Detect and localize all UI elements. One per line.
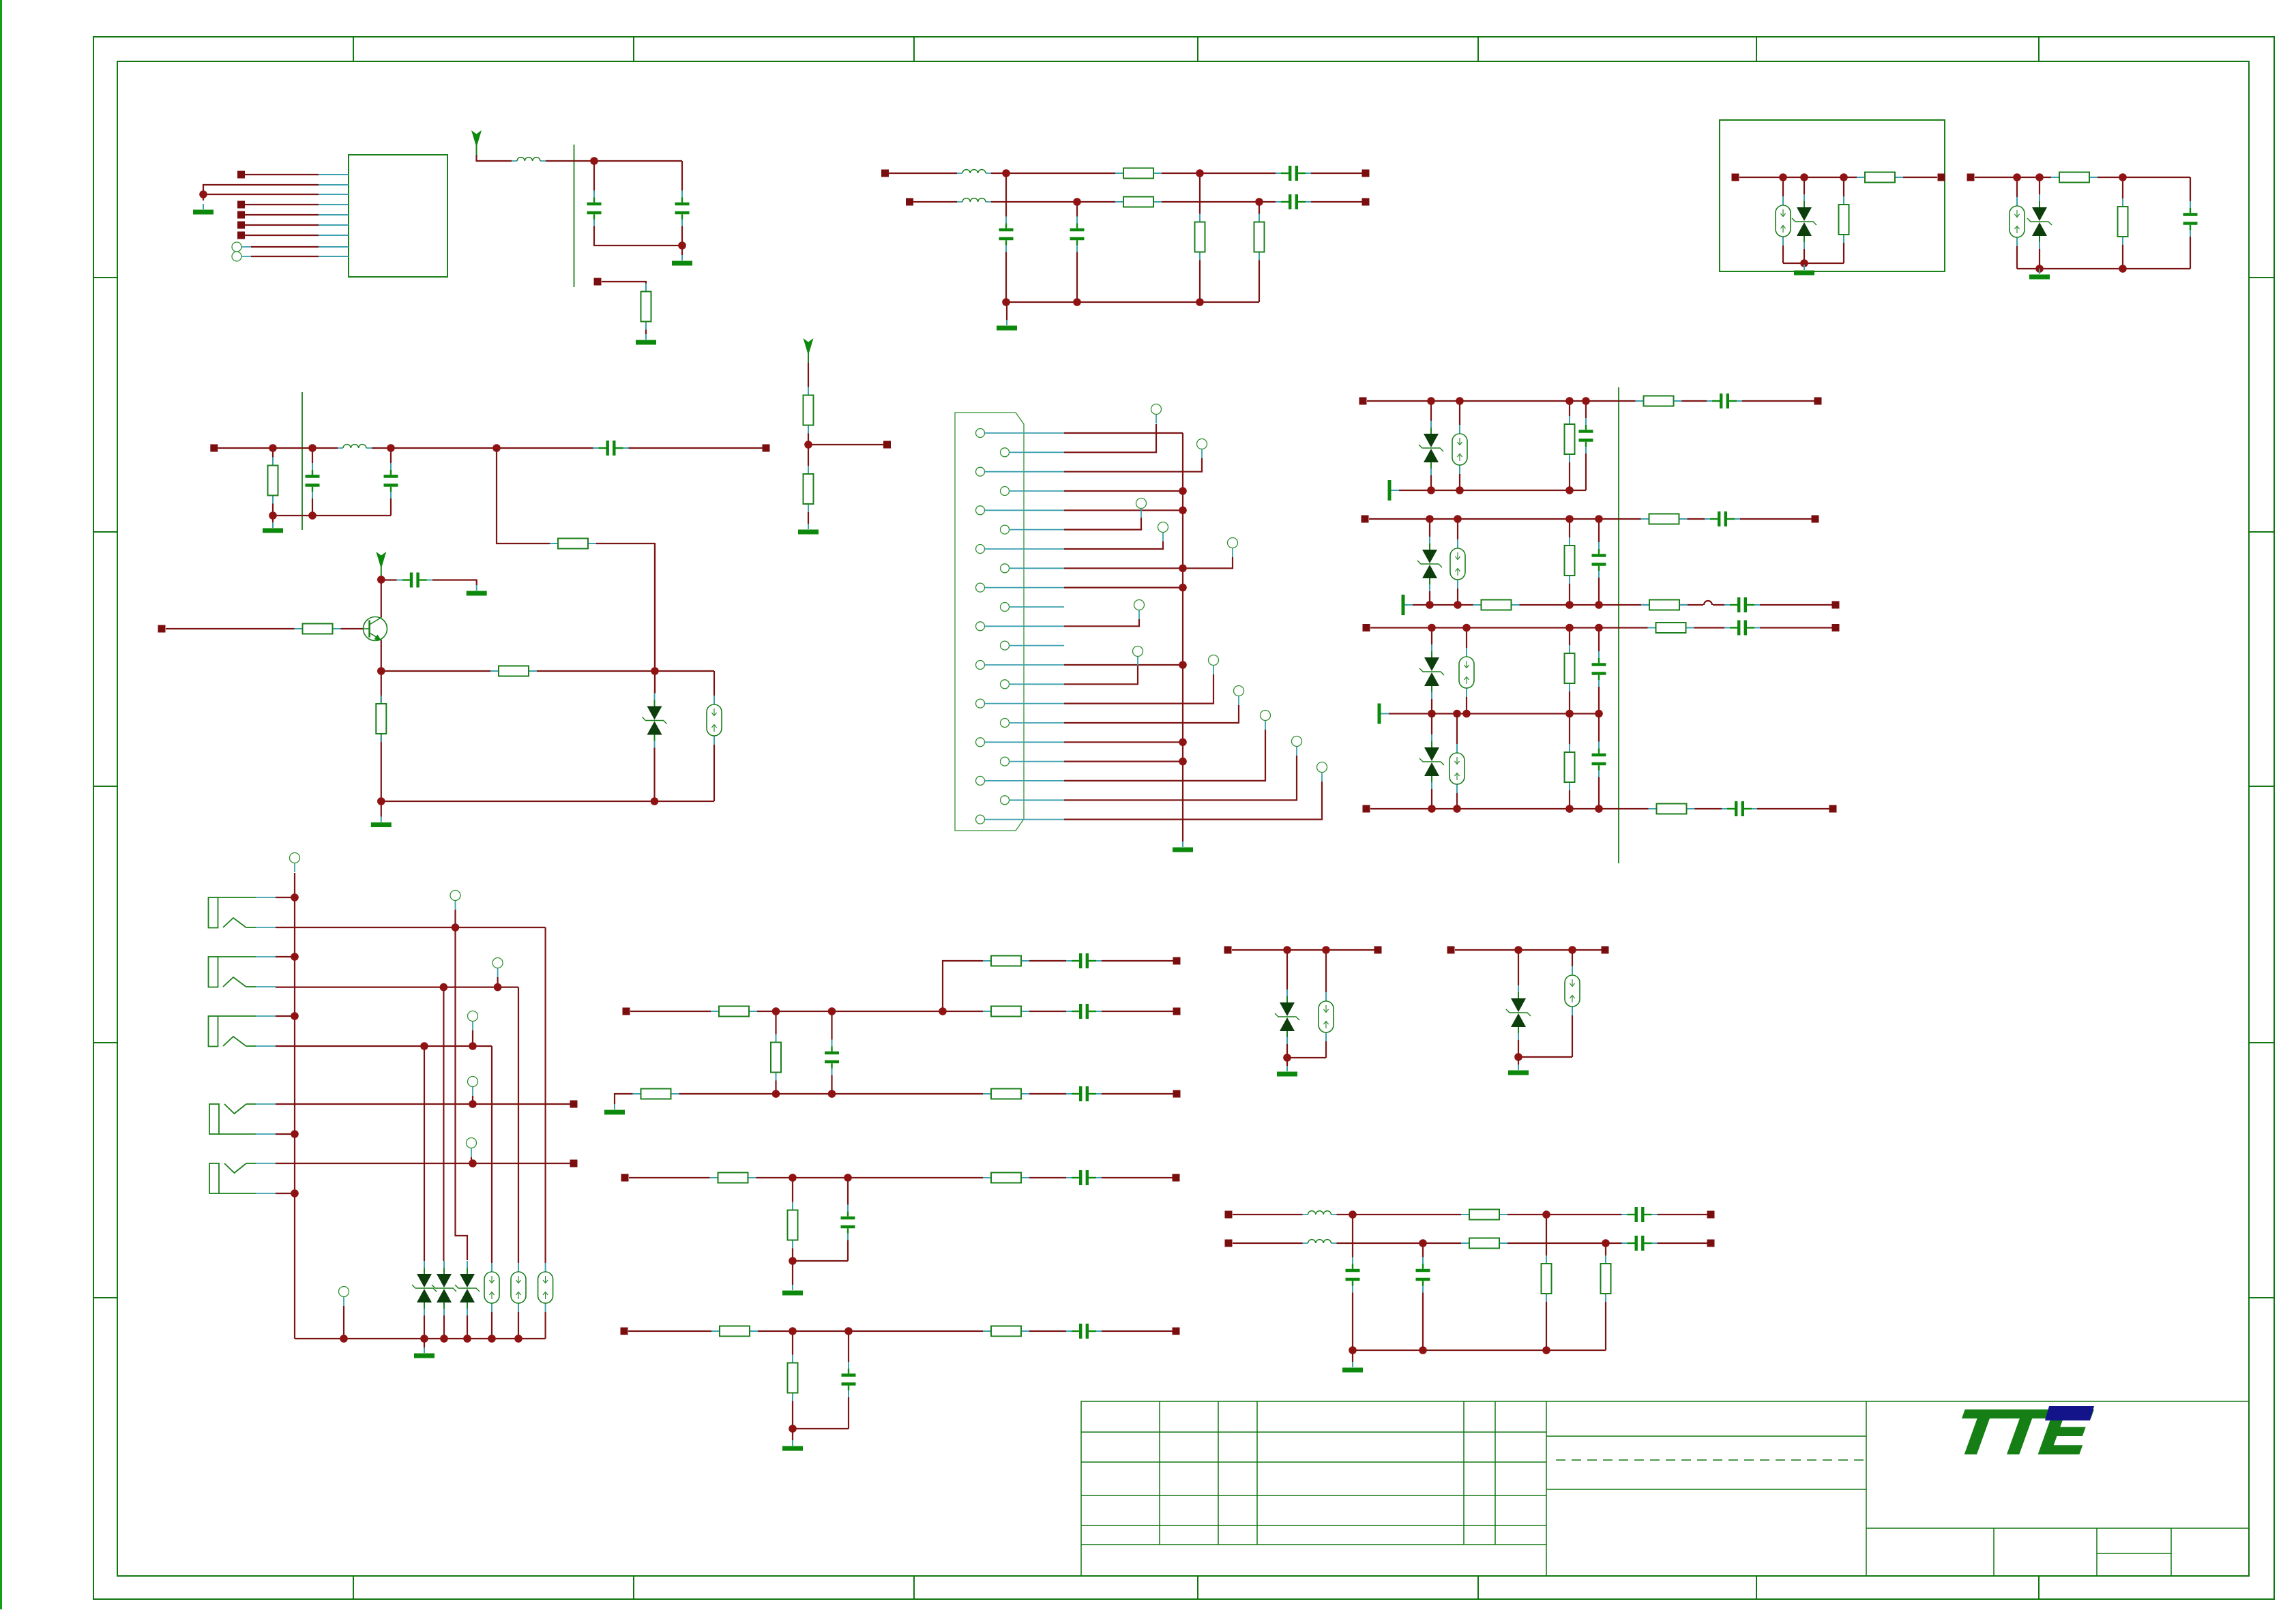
junction [1002,169,1263,306]
junction [1427,397,1590,494]
wire block2 [1975,177,2190,273]
wire midleft drops [273,448,391,522]
wire CN1 pin2 [1064,424,1156,452]
gas discharge tube GT10 [538,1263,553,1312]
wire antenna net [477,155,683,255]
TVS diode D5 [1417,537,1442,591]
ground [371,817,392,828]
capacitor C4 [1069,217,1085,252]
port P8 [906,198,913,206]
capacitor C19 [1591,742,1607,777]
capacitor C22 [1066,1002,1102,1020]
port P38 [1374,947,1382,954]
junction [2013,173,2127,273]
junctions jack area [291,893,523,1343]
wire M2 drops [793,1178,848,1285]
resistor R37 [983,1326,1029,1337]
junction [772,1090,836,1098]
ground [263,522,283,533]
resistor R18 [1636,396,1682,406]
wire railB [1413,604,1832,606]
resistor R21 [1473,600,1520,610]
port P22 [1832,601,1840,609]
resistor R38 [788,1355,798,1401]
wire CN1 pin17 [1064,741,1183,743]
audio jack J2 [209,957,276,987]
resistor R29 [983,1007,1029,1017]
wire CN1 pin4 [1064,490,1183,492]
wire CN1 pin1 [1064,432,1183,434]
resistor R11 [550,539,596,549]
port P20 [1362,516,1369,523]
wire railC [1389,713,1599,714]
wire P6 to R1 [602,282,646,334]
wire LC drops [1353,1215,1606,1362]
wire CN1 pin21 [1064,781,1322,820]
wire hop [1704,601,1712,605]
port P19 [1814,398,1822,405]
ground [782,1440,803,1451]
connector CN1 [955,413,1024,831]
gas discharge tube GT8 [484,1263,499,1312]
company logo TTE [1952,1397,2095,1466]
junction [1426,601,1603,609]
wire T19 stub [343,1306,344,1339]
wire jack bus [294,873,295,1339]
capacitor C21 [1066,952,1102,970]
TVS diode D4 [1419,421,1443,475]
resistor R19 [1565,537,1575,584]
gas discharge tube GT2 [2010,197,2025,246]
wire T17 stub [472,1096,473,1104]
junction [789,1174,852,1265]
capacitor C7 [2182,201,2198,237]
TVS diode D1 [1792,194,1816,249]
wire block1 drops [1783,177,1844,267]
junction [1514,946,1576,1061]
inductor L3 [957,198,991,202]
ground [1342,1362,1363,1373]
capacitor C17 [1591,651,1607,687]
resistor R12 [804,387,814,434]
port P37 [1224,947,1232,954]
wire T18 stub [471,1157,472,1163]
port P23 [1363,624,1370,631]
resistor R25 [1565,744,1575,790]
resistor R31 [633,1089,679,1099]
port P41 [1225,1211,1233,1219]
capacitor C6 [1276,193,1311,211]
wire CN1 pin15 [1064,674,1213,704]
capacitor C5 [1276,164,1311,182]
wire rowM3 [628,1330,1173,1332]
wire rowD drops [1432,714,1599,809]
resistor R22 [1641,600,1688,610]
port P10 [1362,198,1370,206]
capacitor C24 [1066,1085,1102,1103]
port P35 [621,1328,628,1335]
wire CN1 pin6 [1064,518,1141,530]
terminal T5 [1228,538,1238,558]
wire M3 drops [793,1331,849,1440]
ground [782,1285,803,1296]
resistor R3 [1115,197,1162,207]
enclosure box [1720,120,1945,271]
wire CN1 pin3 [1064,458,1202,472]
junction [1283,946,1330,1062]
wire jack tip pins [276,897,295,1193]
resistor R15 [490,666,537,676]
vertical screen line [1618,387,1619,863]
vertical screen line [301,392,303,530]
capacitor C8 [304,463,321,498]
wire row drops [1006,173,1259,320]
junction [772,1007,947,1015]
wire CN1 pin5 [1064,509,1183,511]
port P36 [1173,1328,1180,1335]
port P42 [1707,1211,1715,1219]
terminal T6 [1134,600,1145,620]
wire T16 stub [472,1030,473,1046]
resistor R13 [804,466,814,512]
wire rowD [1370,808,1829,809]
wire J4 switch [276,1103,570,1105]
junction [199,190,207,198]
capacitor C2 [674,191,690,226]
gas discharge tube GT4 [1452,425,1467,474]
TVS diode D2 [2027,194,2052,249]
gas discharge tube GT7 [1449,744,1465,793]
junction [804,441,812,449]
port P43 [1225,1240,1233,1247]
terminal T15 [492,958,503,978]
resistor R10 [268,458,278,504]
pin socket terminals [232,242,251,261]
port P11 [1732,174,1739,181]
junction [1428,710,1603,718]
wire divider [808,363,883,524]
resistor R33 [710,1173,756,1183]
terminal T7 [1133,646,1143,666]
port P3 [237,211,245,219]
wire J1 switch [276,927,546,1263]
port P39 [1447,947,1455,954]
capacitor C9 [383,463,399,498]
inductor L6 [1303,1240,1337,1243]
wire U2 drops [776,1011,832,1094]
gas discharge tube GT6 [1459,648,1474,697]
ground [1173,842,1193,852]
wire rowB [1369,518,1812,520]
port P1 [237,171,245,179]
port P30 [623,1008,630,1015]
capacitor C30 [1622,1234,1658,1252]
resistor R26 [1649,804,1695,814]
capacitor C13 [1707,392,1742,410]
wire rowC drops [1432,628,1599,714]
terminal T1 [1151,404,1162,424]
capacitor C16 [1724,596,1760,614]
wire rowM2 [629,1177,1173,1178]
shield terminal [1378,704,1389,724]
terminal T12 [1317,762,1327,782]
port P40 [1602,947,1609,954]
capacitor C18 [1724,619,1760,637]
terminal T17 [468,1077,478,1097]
resistor R16 [376,696,386,742]
capacitor C12 [1578,418,1594,453]
wire CN1 pin9 [1064,586,1183,588]
capacitor C11 [397,571,432,589]
TVS diode D8c [455,1261,480,1315]
resistor R36 [711,1326,758,1337]
wire CN1 pin14 [1064,666,1138,684]
inductor L2 [957,170,991,173]
port P25 [1363,805,1370,813]
resistor R8 [2051,173,2098,183]
ground [1794,265,1814,276]
resistor R6 [1839,196,1849,243]
antenna ANT3 [376,552,386,576]
port P6 [594,278,602,286]
wire CN1 pin18 [1064,760,1183,762]
terminal T13 [290,853,300,873]
audio jack J3 [209,1016,276,1047]
gas discharge tube GT3 [707,696,722,745]
capacitor C23 [824,1040,840,1075]
junction [1349,1210,1610,1354]
ground [1508,1064,1529,1075]
resistor R5 [1254,214,1265,260]
port P24 [1832,624,1840,631]
wire CN1 pin7 [1064,541,1163,549]
audio jack J4 [209,1104,276,1134]
ground [414,1347,435,1358]
port P15 [763,445,770,452]
resistor R1 [641,284,651,330]
resistor R42 [1601,1255,1611,1302]
vertical screen line [574,145,575,287]
wire U1 pins [203,175,319,256]
wire CN1 pin19 [1064,730,1265,781]
capacitor C28 [840,1362,857,1397]
ground [1277,1066,1297,1077]
gas discharge tube GT5 [1450,539,1465,589]
antenna ANT1 [471,130,482,155]
shield terminal [1388,480,1400,501]
port P33 [621,1174,629,1182]
wire J5 switch [276,1163,570,1164]
terminal T16 [468,1011,478,1031]
wire LC row1 [1233,1214,1707,1215]
gas discharge tube GT11 [1319,992,1334,1041]
junction [1426,515,1603,523]
junctions CN1 bus [1179,487,1187,765]
junction [377,576,659,805]
wire rowB drops [1430,519,1599,605]
resistor R17 [1565,416,1575,462]
junction [1428,624,1603,632]
resistor R41 [1542,1255,1552,1302]
wire emitter rail [381,671,714,817]
ground [997,320,1017,331]
port P26 [1829,805,1837,813]
port P17 [158,625,166,633]
port P28 [570,1160,578,1167]
terminal T11 [1292,736,1302,756]
resistor R14 [295,624,341,634]
TVS diode D9 [1275,989,1299,1044]
wire base [166,628,364,629]
wire CN1 pin13 [1064,664,1183,666]
wire block1 row [1739,177,1937,178]
wire row2 [913,201,1362,203]
capacitor C32 [1415,1257,1431,1293]
transistor Q1 [364,617,387,641]
junction [1779,173,1848,267]
port P16 [883,441,891,449]
wire rowU1 [943,961,1173,1011]
TVS diode D8b [432,1261,456,1315]
TVS diode D7 [1419,734,1444,789]
port P4 [237,222,245,229]
gas discharge tube GT12 [1565,966,1580,1015]
wire collector-emitter [381,544,714,696]
wire J3 switch [276,1046,492,1263]
resistor R2 [1115,168,1162,179]
port P34 [1173,1174,1180,1182]
capacitor C3 [998,217,1014,252]
wire row1 [889,173,1362,174]
wire midleft row [218,447,763,449]
wire LC row2 [1233,1242,1707,1244]
resistor R34 [983,1173,1029,1183]
terminal T8 [1209,655,1219,675]
wire rowC [1370,627,1832,628]
wire J2 switch [276,987,518,1263]
TVS diode D10 [1506,985,1531,1040]
junction [789,1327,853,1433]
port P7 [881,170,889,177]
inductor L1 [512,158,546,161]
TVS diode D8a [412,1261,437,1315]
terminal T9 [1234,686,1244,706]
ground [193,204,214,215]
wire E2 [1455,950,1602,1064]
resistor R35 [788,1202,798,1249]
resistor R24 [1648,623,1694,633]
wire CN1 pin16 [1064,705,1239,723]
terminal T18 [467,1138,477,1158]
ground [798,524,819,535]
port P32 [1173,1090,1181,1098]
port P44 [1707,1240,1715,1247]
port P2 [237,201,245,209]
wire rowM1 [615,1094,1173,1104]
resistor R32 [983,1089,1029,1099]
terminal T3 [1136,498,1147,518]
ground [2029,269,2050,280]
resistor R28 [711,1007,757,1017]
wire T14 to D8 [456,910,468,1260]
capacitor C31 [1344,1257,1361,1293]
wire E1 [1232,950,1374,1066]
junction [590,157,686,250]
wire T15 stub [497,977,498,987]
capacitor C27 [1066,1322,1102,1340]
port P27 [570,1101,578,1108]
resistor R27 [983,956,1029,966]
resistor R9 [2118,198,2128,245]
wire to emitter node [497,448,655,693]
wire CN1 pin20 [1064,756,1297,800]
resistor R4 [1195,214,1205,260]
capacitor C29 [1622,1206,1658,1223]
resistor R7 [1857,173,1903,183]
port P12 [1938,174,1945,181]
IC U1 [349,155,447,277]
capacitor C25 [1066,1169,1102,1187]
gas discharge tube GT9 [511,1263,526,1312]
capacitor C1 [586,191,602,226]
shield terminal [1402,595,1413,615]
wire CN1 ground bus [1182,433,1183,842]
port P18 [1359,398,1367,405]
wire CN1 pin11 [1064,619,1139,626]
wire rowA drops [1399,401,1586,490]
title block [1081,1401,2249,1576]
port P9 [1362,170,1370,177]
audio jack J5 [209,1163,276,1193]
antenna ANT2 [804,338,814,363]
port P14 [210,445,218,452]
wire rowA [1367,400,1814,402]
terminal T10 [1261,711,1271,730]
port P21 [1812,516,1819,523]
connector CN1 pins [976,429,1065,824]
inductor L4 [338,445,372,448]
terminal T4 [1158,522,1168,542]
port P5 [237,232,245,239]
terminal T2 [1197,439,1207,459]
IC U1 pin stubs [319,175,349,256]
resistor R40 [1461,1238,1507,1249]
capacitor C26 [840,1205,856,1240]
resistor R20 [1641,514,1688,524]
port P13 [1967,174,1975,181]
capacitor C10 [593,439,629,457]
gas discharge tube GT1 [1776,196,1791,245]
capacitor C15 [1705,510,1740,528]
audio jack J1 [209,897,276,928]
resistor R23 [1565,645,1575,691]
resistor R39 [1461,1210,1507,1220]
TVS diode D3 [643,694,667,748]
capacitor C20 [1722,800,1757,818]
resistor R30 [771,1034,781,1081]
ground [672,255,692,266]
wire CN1 pin8 [1064,557,1233,568]
terminal T14 [450,891,460,910]
terminal T19 [339,1287,349,1307]
junction [269,444,501,520]
wire jack rail [295,1312,546,1347]
ground [604,1104,625,1115]
port P29 [1173,957,1181,965]
junction [1428,805,1603,813]
wire rowU2 [630,1011,1173,1012]
TVS diode D6 [1419,644,1444,699]
